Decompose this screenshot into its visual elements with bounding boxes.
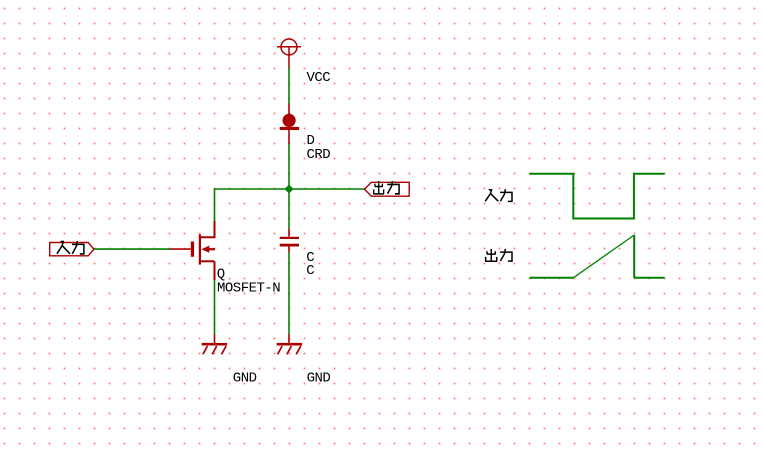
wire input label to gate (94, 248, 170, 250)
svg-text:MOSFET-N: MOSFET-N (217, 280, 280, 296)
transistor Q (MOSFET-N) (170, 221, 216, 280)
capacitor C (280, 228, 299, 252)
waveform label 入力 (485, 189, 512, 201)
svg-text:GND: GND (307, 371, 331, 387)
waveform output ramp (530, 235, 665, 278)
ground GND right (277, 334, 302, 354)
wire Q source to GND (214, 280, 216, 334)
net label 入力 (input) (50, 241, 94, 256)
svg-text:CRD: CRD (307, 147, 331, 163)
wire node to output label (289, 188, 365, 190)
ground GND left (202, 334, 227, 354)
wire capacitor to GND (288, 253, 290, 335)
diode D (CRD) (280, 104, 299, 145)
waveform label 出力 (485, 249, 512, 261)
junction node (285, 185, 294, 194)
wire node to capacitor (288, 189, 290, 228)
wire VCC to D (288, 68, 290, 104)
svg-text:VCC: VCC (307, 70, 331, 86)
wire node to Q drain (215, 189, 290, 221)
net label 出力 (output) (365, 181, 410, 196)
power symbol VCC (277, 39, 301, 68)
wire D to node (288, 144, 290, 189)
waveform input square wave (530, 174, 665, 219)
svg-text:C: C (306, 263, 314, 279)
svg-text:GND: GND (233, 371, 257, 387)
